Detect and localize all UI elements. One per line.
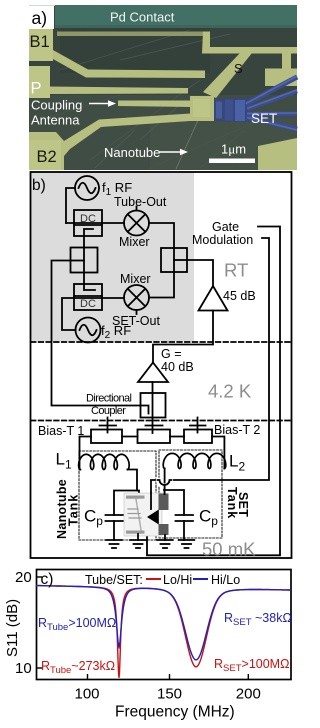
svg-text:Coupling: Coupling xyxy=(31,98,82,113)
wire gate into device xyxy=(150,493,152,509)
SEM substrate shading xyxy=(29,95,297,170)
svg-text:Cp: Cp xyxy=(199,507,218,529)
svg-text:L1: L1 xyxy=(56,450,72,472)
coupling antenna trace xyxy=(118,101,192,108)
wire bias tee 2 to L2 xyxy=(212,437,224,469)
inductor L2 xyxy=(163,453,226,468)
right electrode bar xyxy=(265,69,297,87)
wire bias tee 1 to L1 xyxy=(80,437,92,470)
svg-text:B1: B1 xyxy=(30,33,50,51)
wire L1 to node A xyxy=(114,470,137,516)
label Directional Coupler xyxy=(86,393,132,418)
svg-text:Pd Contact: Pd Contact xyxy=(110,10,175,25)
power combiner left xyxy=(71,248,98,273)
P electrode xyxy=(29,66,50,98)
amplifier G=40dB xyxy=(138,363,168,383)
svg-text:S: S xyxy=(234,61,243,76)
S11 red curve Lo/Hi xyxy=(36,586,291,678)
temperature stage boundary 4.2K/50mK dashed xyxy=(31,420,291,422)
ground under Cp2 xyxy=(179,540,195,548)
wire gate modulation A xyxy=(147,227,280,556)
svg-text:Gate: Gate xyxy=(212,220,239,234)
svg-text:RSET ~38kΩ: RSET ~38kΩ xyxy=(224,611,292,628)
svg-text:SET-Out: SET-Out xyxy=(112,314,160,328)
nanotube faint line xyxy=(176,118,199,169)
splitter box cold xyxy=(138,426,171,444)
x ticks xyxy=(87,674,89,679)
SET junction bottom xyxy=(159,524,169,535)
svg-text:B2: B2 xyxy=(37,148,57,166)
amplifier RT 45 dB xyxy=(199,286,228,311)
panel c: S11 reflectance spectra plot xyxy=(4,569,292,721)
svg-text:a): a) xyxy=(32,8,48,28)
wire f2 to mixer M2 xyxy=(62,298,124,330)
B2 electrode xyxy=(29,114,190,171)
svg-text:Antenna: Antenna xyxy=(31,113,80,128)
wire amp to directional coupler xyxy=(152,382,154,393)
Pd Contact band xyxy=(55,5,297,28)
panel b frame xyxy=(31,172,292,558)
top right stepped trace xyxy=(202,32,297,54)
svg-text:45 dB: 45 dB xyxy=(223,289,256,303)
panel a: SEM micrograph of device xyxy=(28,5,297,170)
svg-text:RTube~273kΩ: RTube~273kΩ xyxy=(41,659,115,676)
svg-text:20: 20 xyxy=(15,569,32,586)
label G = 40 dB xyxy=(161,347,194,374)
svg-text:RSET>100MΩ: RSET>100MΩ xyxy=(214,657,289,674)
white corner box with a) xyxy=(28,6,54,29)
svg-text:SET: SET xyxy=(251,111,277,126)
SET junction top xyxy=(159,494,169,511)
ground under Cp1 xyxy=(106,540,122,548)
svg-text:Tank: Tank xyxy=(67,494,81,526)
capacitor Cp1 xyxy=(106,515,124,540)
svg-text:1μm: 1μm xyxy=(221,142,246,157)
svg-text:Tube/SET:: Tube/SET: xyxy=(85,573,143,587)
svg-text:Coupler: Coupler xyxy=(91,405,126,417)
bias tee 2 xyxy=(184,418,212,444)
plot frame xyxy=(37,570,292,680)
wire combiner to DC block 2 xyxy=(84,273,95,291)
svg-text:40 dB: 40 dB xyxy=(161,360,194,374)
svg-text:P: P xyxy=(31,80,42,98)
svg-text:b): b) xyxy=(32,177,46,194)
B1 electrode xyxy=(29,28,205,78)
svg-text:Cp: Cp xyxy=(84,507,103,529)
right connector trace xyxy=(282,53,291,70)
axis labels xyxy=(4,569,261,721)
svg-text:150: 150 xyxy=(157,686,182,703)
ground under SET xyxy=(157,540,173,548)
wire bias row xyxy=(122,436,184,438)
mixer M1 IF tick xyxy=(136,207,138,211)
S11 blue curve Hi/Lo xyxy=(36,586,291,660)
svg-text:4.2 K: 4.2 K xyxy=(208,381,252,402)
DC block 1 xyxy=(74,210,102,236)
wire f1 to DC block 1 xyxy=(66,188,75,223)
svg-text:Nanotube: Nanotube xyxy=(104,145,160,160)
svg-text:DC: DC xyxy=(80,298,96,310)
mixer M2 IF tick xyxy=(136,310,138,314)
source f2 RF xyxy=(76,318,101,343)
inductor L1 xyxy=(79,454,130,469)
wire SET to ground xyxy=(164,535,166,540)
svg-text:Lo/Hi: Lo/Hi xyxy=(163,573,192,587)
wire coupler to bias tee line xyxy=(152,418,154,434)
crossover bridge gate line over L2 wire xyxy=(158,480,172,486)
ground under nanotube xyxy=(130,540,146,548)
wire splitter to RT amp xyxy=(187,260,213,286)
svg-text:G =: G = xyxy=(161,347,182,361)
svg-text:100: 100 xyxy=(75,686,100,703)
power splitter right xyxy=(161,248,187,272)
label SET Tank rotated xyxy=(225,487,250,519)
capacitor Cp2 xyxy=(176,515,194,540)
svg-text:DC: DC xyxy=(80,213,96,225)
wire node B to Cp2 xyxy=(164,490,184,515)
svg-text:RT: RT xyxy=(224,260,248,281)
wire L2 to node B xyxy=(164,469,166,494)
SEM background xyxy=(29,6,297,170)
source f1 RF xyxy=(75,176,99,200)
wire main line f1 to mixer M1 xyxy=(66,222,124,224)
S electrode diagonal xyxy=(203,53,252,98)
svg-text:10: 10 xyxy=(15,660,32,677)
bias tee 1 xyxy=(91,418,122,444)
svg-text:L2: L2 xyxy=(229,452,245,474)
bottom right electrode xyxy=(258,138,297,170)
svg-text:Modulation: Modulation xyxy=(192,233,253,247)
SET tank dashed box xyxy=(159,450,222,538)
svg-text:Tank: Tank xyxy=(225,487,239,519)
wire combiner to cryostat feed xyxy=(52,261,141,406)
svg-text:Mixer: Mixer xyxy=(120,272,151,286)
svg-text:200: 200 xyxy=(236,686,261,703)
wire RT amp to 4.2K amp xyxy=(153,311,213,363)
svg-text:c): c) xyxy=(41,571,54,588)
svg-text:S11 (dB): S11 (dB) xyxy=(4,599,21,657)
wire gate modulation B with crossover hump xyxy=(151,238,269,512)
directional coupler xyxy=(141,393,166,418)
svg-text:Bias-T 2: Bias-T 2 xyxy=(214,423,260,437)
wire node A to nanotube contact xyxy=(137,491,139,497)
wire mixer M1 to splitter S2 xyxy=(149,223,174,248)
SEM texture scratches xyxy=(40,30,260,168)
SET yellow pad xyxy=(190,96,214,121)
RT shaded region xyxy=(31,173,194,342)
wire L2 tail below bridge xyxy=(164,486,166,494)
nanotube device region xyxy=(124,493,162,536)
mixer M2 xyxy=(124,285,149,310)
temperature stage boundary RT/4.2K dashed xyxy=(31,341,291,343)
label Nanotube Tank rotated xyxy=(55,479,81,539)
y ticks xyxy=(37,576,43,578)
svg-text:50 mK: 50 mK xyxy=(202,539,256,560)
nanotube tank dashed box xyxy=(79,451,156,540)
SEM grain overlay xyxy=(29,5,297,170)
svg-text:Frequency (MHz): Frequency (MHz) xyxy=(115,704,235,721)
coupling antenna wedge xyxy=(147,510,159,525)
thin yellow line under band xyxy=(57,32,203,37)
svg-text:Bias-T 1: Bias-T 1 xyxy=(38,424,84,438)
svg-text:Mixer: Mixer xyxy=(119,235,150,249)
DC block 2 xyxy=(74,284,102,310)
wire nanotube lower contact to ground xyxy=(137,534,139,540)
wire DC1 tap to combiner xyxy=(84,229,93,248)
wire mixer M2 to splitter S2 xyxy=(149,272,174,298)
SET blue structure xyxy=(214,76,297,130)
label Gate Modulation xyxy=(192,220,253,247)
svg-text:Tube-Out: Tube-Out xyxy=(114,195,167,209)
panel b: measurement circuit schematic xyxy=(31,172,292,560)
svg-text:Directional: Directional xyxy=(86,393,132,405)
svg-text:Hi/Lo: Hi/Lo xyxy=(211,573,240,587)
mixer M1 xyxy=(124,211,149,236)
svg-text:RTube>100MΩ: RTube>100MΩ xyxy=(38,616,116,633)
